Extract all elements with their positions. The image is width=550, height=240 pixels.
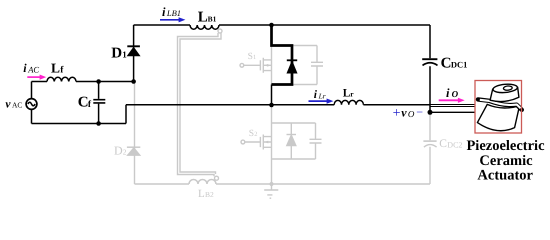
wire: actuator bottom lead from vO node <box>430 111 475 113</box>
actuator top hole <box>503 86 512 91</box>
wire: bottom-left rail <box>32 123 127 125</box>
svg-text:2: 2 <box>254 131 257 138</box>
svg-text:B1: B1 <box>208 15 217 24</box>
arrow iLr (blue) <box>309 99 334 104</box>
diode D2 symbol <box>127 147 140 155</box>
svg-text:Ceramic: Ceramic <box>479 153 533 169</box>
svg-text:Piezoelectric: Piezoelectric <box>466 138 545 154</box>
svg-text:L: L <box>198 188 205 200</box>
actuator body frustum <box>477 104 519 130</box>
svg-text:v: v <box>5 99 11 111</box>
svg-text:2: 2 <box>123 148 127 157</box>
wire: Lf rail right to D1 node <box>76 81 134 83</box>
svg-text:i: i <box>314 89 318 101</box>
wire: changeover bracket (double line) outer <box>178 33 219 176</box>
node: junction dots <box>96 23 432 126</box>
wire: middle rail right of Lr to actuator <box>363 104 430 106</box>
svg-text:i: i <box>162 5 166 19</box>
wire: D2 branch vertical <box>134 82 136 184</box>
svg-text:i: i <box>23 61 27 75</box>
capacitor C,S2 branch <box>315 123 317 159</box>
svg-text:AC: AC <box>27 64 39 74</box>
wire: grey bottom rail left of LB2 <box>135 183 190 185</box>
wire: grey bottom rail right of LB2 <box>216 183 430 185</box>
svg-text:i: i <box>446 86 450 100</box>
wire: D1 branch <box>133 25 135 82</box>
capacitor CDC1 branch <box>429 25 431 112</box>
diode D,S2 wire <box>290 123 292 159</box>
wire: S1 cell lower vertical <box>271 85 273 106</box>
arrow iLB1 (blue) <box>160 17 185 22</box>
svg-text:Actuator: Actuator <box>477 168 533 184</box>
transistor S2 (grey MOSFET) <box>241 140 245 144</box>
svg-text:v: v <box>401 106 407 120</box>
arrow iAC (magenta) <box>27 75 46 80</box>
svg-text:Lr: Lr <box>318 91 326 100</box>
svg-text:D: D <box>114 144 123 158</box>
svg-text:C: C <box>439 138 447 150</box>
inductor LB1 (scallops below line) <box>190 25 219 29</box>
svg-text:r: r <box>350 89 354 98</box>
svg-text:B2: B2 <box>205 190 214 199</box>
arrow iO (magenta) <box>439 98 465 103</box>
inductor LB2 <box>189 180 216 185</box>
diode D1 symbol <box>127 46 140 56</box>
svg-text:−: − <box>416 105 423 119</box>
wire: top rail left of LB1 <box>134 24 190 26</box>
red box around actuator <box>475 81 522 134</box>
svg-text:L: L <box>51 61 60 76</box>
svg-text:AC: AC <box>12 101 22 110</box>
transistor S1 (grey MOSFET) <box>240 63 244 67</box>
svg-text:+: + <box>393 106 401 121</box>
actuator drawing <box>477 83 521 130</box>
wire: S2 cell bottom horizontal <box>272 158 316 160</box>
svg-text:1: 1 <box>253 54 256 61</box>
svg-text:L: L <box>198 10 208 26</box>
wire: S1 cell grey channel vertical <box>271 46 273 85</box>
source vAC circle <box>26 99 37 110</box>
svg-text:f: f <box>60 66 64 76</box>
wire: source left vertical <box>31 82 33 124</box>
diode D,S1 symbol <box>287 60 297 73</box>
diode D,S2 symbol <box>287 135 297 146</box>
wire: middle rail to Lr <box>126 104 334 106</box>
capacitor C,S1 grey branch in S1 cell <box>292 46 317 85</box>
capacitor Cf branch <box>98 82 100 124</box>
svg-text:DC1: DC1 <box>451 60 468 70</box>
ground <box>264 184 278 198</box>
actuator top ellipse <box>493 83 518 93</box>
inductor Lf <box>47 77 76 81</box>
svg-text:C: C <box>441 55 452 71</box>
svg-text:DC2: DC2 <box>447 140 462 149</box>
wire: jog up to middle rail <box>125 105 127 124</box>
wire: top rail right of LB1 <box>219 24 430 26</box>
actuator top cylinder <box>490 87 519 102</box>
svg-text:D: D <box>111 46 122 62</box>
node: grey terminal circle below LB1 <box>218 29 222 33</box>
wire: S2 cell main vertical <box>271 107 273 184</box>
svg-text:O: O <box>452 89 459 99</box>
actuator flange strip with tabs <box>478 99 522 109</box>
node: grey junction dot at ground <box>270 182 274 186</box>
capacitor CDC2 branch <box>429 114 431 184</box>
node: grey terminal circle at LB2 right <box>215 176 219 180</box>
wire: changeover bracket (double line) inner <box>180 33 221 174</box>
svg-text:1: 1 <box>122 50 127 60</box>
svg-text:O: O <box>408 109 415 119</box>
wire: actuator top lead pair <box>429 104 474 106</box>
wire: S2 cell top horizontal <box>272 122 316 124</box>
svg-text:LB1: LB1 <box>166 8 181 18</box>
wire: Lf rail left <box>32 81 48 83</box>
wire: S1 bold path through diode <box>272 25 293 85</box>
svg-text:f: f <box>88 100 92 110</box>
inductor Lr <box>334 100 363 104</box>
